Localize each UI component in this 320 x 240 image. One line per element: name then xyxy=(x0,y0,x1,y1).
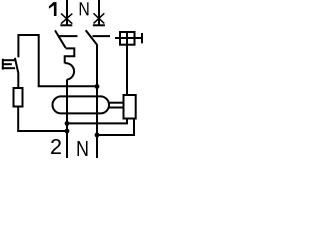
switch contact pole N (blade) xyxy=(86,30,97,45)
label 1 (terminal 1, top) xyxy=(49,2,57,16)
wire test branch right vertical xyxy=(38,34,40,86)
node D junction dot on neutral xyxy=(95,133,100,138)
test button push bar xyxy=(141,33,143,43)
label N (terminal N, bottom) xyxy=(77,141,87,156)
wire phase vertical xyxy=(66,80,68,159)
test switch manual actuator comb xyxy=(2,59,15,70)
node C junction dot on neutral xyxy=(95,84,100,89)
switch contact pole 1 (blade) xyxy=(55,30,66,47)
switch contact pole N (fixed bar) xyxy=(93,35,111,37)
resistor R test xyxy=(14,88,23,107)
wire from node D to trip relay xyxy=(97,119,134,136)
wire test contact stub xyxy=(17,35,19,57)
wire resistor return to node B xyxy=(17,130,65,132)
CT secondary wire lower xyxy=(108,107,124,109)
thermal overload release F1 (hook) xyxy=(65,48,75,63)
wire below resistor xyxy=(17,107,19,132)
label 2 (terminal 2, bottom) xyxy=(51,139,61,154)
magnetic release coil (arc bump) xyxy=(65,63,74,79)
trip relay box K1 xyxy=(124,95,136,119)
wire neutral vertical xyxy=(96,44,98,158)
terminal N clamp xyxy=(93,0,105,25)
test switch blade xyxy=(15,58,18,88)
wire test branch to neutral node C xyxy=(38,85,96,87)
node A junction dot on phase xyxy=(65,121,70,126)
test button T (square with cross) xyxy=(115,32,141,45)
wire from node A to trip relay xyxy=(67,119,127,124)
current transformer toroid W1 xyxy=(53,96,110,113)
wire test button to relay xyxy=(126,45,128,95)
switch contact pole 1 (fixed bar) xyxy=(59,35,78,37)
terminal 1 clamp xyxy=(60,0,72,25)
node B junction dot on phase xyxy=(65,129,70,134)
wire test branch top horizontal xyxy=(17,34,38,36)
CT secondary wire upper xyxy=(108,102,124,104)
label N (terminal N, top) xyxy=(80,2,89,15)
